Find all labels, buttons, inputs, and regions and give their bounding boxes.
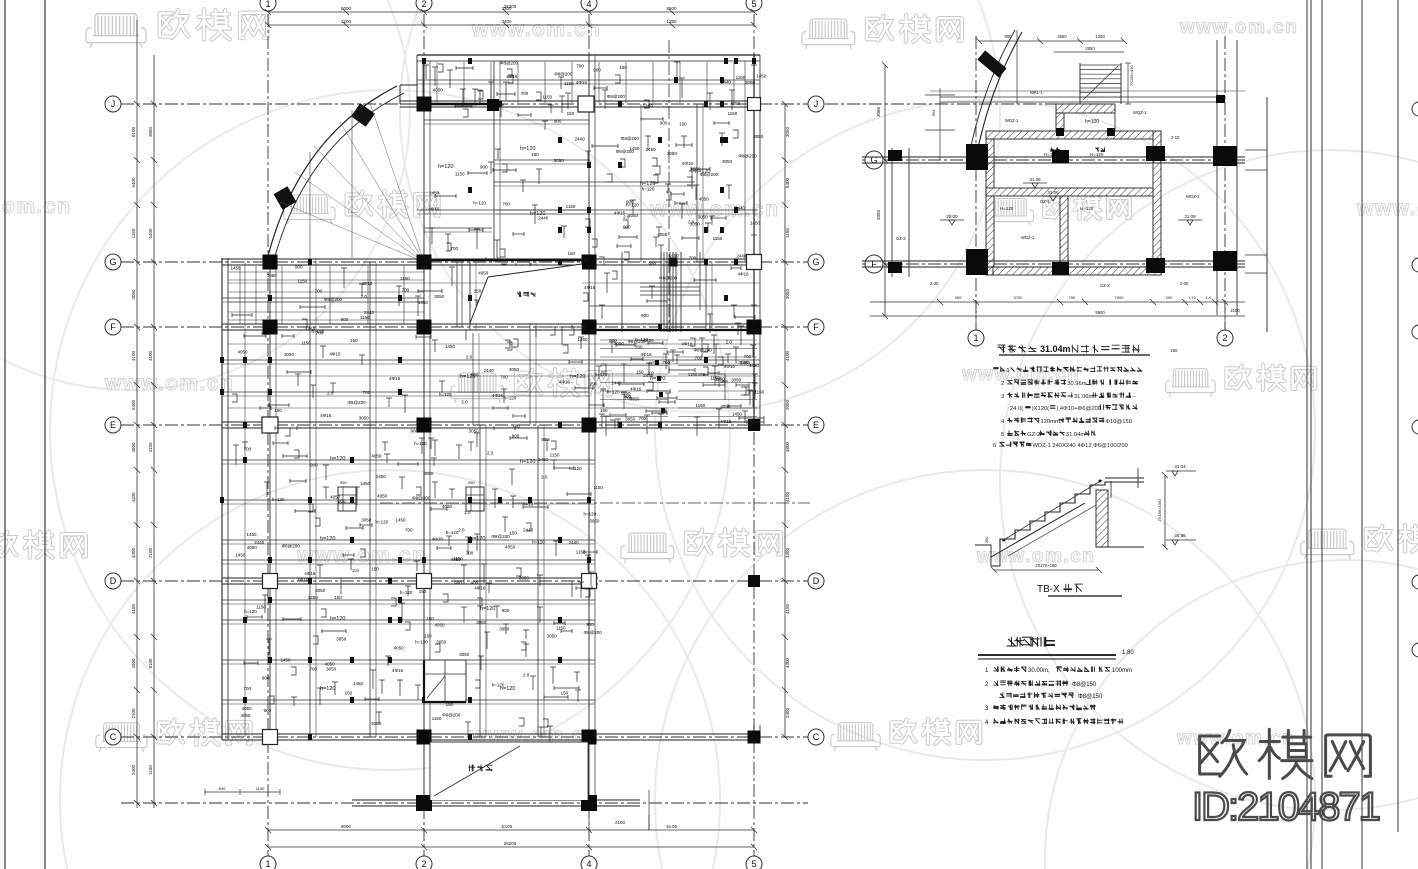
svg-text:ID:2104871: ID:2104871	[1192, 785, 1380, 829]
svg-text:2-10: 2-10	[1171, 135, 1180, 140]
svg-text:1:80: 1:80	[1122, 650, 1134, 656]
svg-text:H=120: H=120	[1090, 152, 1104, 157]
svg-text:1450: 1450	[247, 532, 258, 537]
svg-text:8000: 8000	[341, 6, 352, 11]
svg-text:WQZ-1: WQZ-1	[1133, 110, 1147, 115]
svg-text:1150: 1150	[688, 372, 698, 377]
svg-text:700: 700	[689, 256, 697, 261]
svg-text:2440: 2440	[254, 540, 265, 545]
watermarks	[86, 14, 146, 48]
svg-text:3050: 3050	[589, 518, 600, 523]
left dimension lines	[136, 20, 138, 808]
detail plan axes	[862, 159, 1245, 161]
svg-text:4200: 4200	[341, 19, 352, 24]
intermediate slab lines	[228, 282, 760, 284]
svg-text:2850: 2850	[1085, 46, 1095, 51]
svg-text:28.00: 28.00	[946, 214, 958, 219]
svg-text:2.0: 2.0	[623, 214, 630, 219]
svg-text:700: 700	[244, 447, 252, 452]
svg-text:1: 1	[265, 0, 270, 9]
room bottom redraw	[430, 742, 588, 800]
svg-text:150: 150	[589, 382, 597, 387]
svg-text:h=120: h=120	[244, 609, 257, 614]
svg-text:1450: 1450	[418, 300, 429, 305]
svg-text:3050: 3050	[722, 159, 733, 164]
svg-text:h=120: h=120	[320, 536, 335, 542]
svg-text:4050: 4050	[241, 706, 252, 711]
svg-text:h=120: h=120	[460, 374, 475, 380]
svg-text:900: 900	[341, 317, 349, 322]
svg-text:2.0: 2.0	[487, 450, 494, 455]
svg-text:900: 900	[649, 261, 657, 266]
svg-text:4150: 4150	[785, 603, 790, 614]
svg-text:2440: 2440	[569, 540, 580, 545]
svg-text:2.0: 2.0	[466, 355, 473, 360]
svg-text:h=120: h=120	[607, 390, 620, 395]
svg-text:Φ8@200: Φ8@200	[584, 630, 603, 635]
svg-text:640: 640	[219, 786, 226, 791]
svg-text:1450: 1450	[445, 344, 456, 349]
svg-text:J: J	[814, 99, 819, 109]
svg-text:4Φ16: 4Φ16	[630, 386, 642, 391]
floor notes title	[1007, 637, 1055, 647]
svg-text:4050: 4050	[451, 557, 462, 562]
svg-text:1450: 1450	[396, 518, 407, 523]
svg-text:4100: 4100	[131, 492, 136, 503]
svg-text:4Φ16: 4Φ16	[389, 376, 401, 381]
svg-text:150: 150	[561, 691, 569, 696]
svg-text:1150: 1150	[695, 403, 705, 408]
svg-text:WDZ-1: WDZ-1	[1005, 118, 1019, 123]
axis bubbles left/right	[105, 96, 121, 112]
svg-text:3050: 3050	[667, 151, 678, 156]
svg-text:4100: 4100	[148, 350, 153, 361]
svg-text:2.0: 2.0	[464, 510, 471, 515]
svg-text:G: G	[812, 257, 819, 267]
svg-text:G: G	[109, 257, 116, 267]
svg-text:GZ-2: GZ-2	[1027, 432, 1040, 438]
upper block outline	[417, 54, 760, 56]
svg-text:GZ-2: GZ-2	[1100, 283, 1110, 288]
detail plan stair shaft top	[1079, 63, 1081, 104]
svg-text:--: --	[1132, 394, 1136, 400]
svg-text:3050: 3050	[509, 367, 520, 372]
svg-text:4050: 4050	[505, 545, 516, 550]
svg-text:1450: 1450	[376, 474, 387, 479]
svg-text:150: 150	[371, 566, 379, 571]
svg-text:C: C	[813, 732, 820, 742]
svg-text:150: 150	[274, 408, 282, 413]
svg-text:2400: 2400	[785, 707, 790, 718]
svg-text:h=120: h=120	[530, 211, 545, 217]
svg-text:2440: 2440	[523, 528, 534, 533]
svg-text:www.om.cn: www.om.cn	[471, 18, 601, 41]
svg-text:700: 700	[466, 550, 474, 555]
detail plan angled column	[977, 50, 1006, 77]
svg-text:1150: 1150	[256, 605, 266, 610]
svg-text:1150: 1150	[755, 389, 765, 394]
svg-text:2440: 2440	[611, 381, 622, 386]
svg-text:4050: 4050	[247, 545, 258, 550]
svg-text:F: F	[871, 259, 877, 269]
svg-text:3050: 3050	[359, 415, 370, 420]
svg-text:1450: 1450	[429, 191, 440, 196]
svg-text:1450: 1450	[732, 412, 743, 417]
svg-text:D: D	[110, 576, 117, 586]
svg-text:2100: 2100	[148, 547, 153, 558]
svg-text:900: 900	[624, 394, 632, 399]
svg-text:954: 954	[931, 109, 936, 116]
svg-text:3050: 3050	[499, 626, 510, 631]
svg-text:700: 700	[316, 331, 324, 336]
svg-text:1350: 1350	[666, 19, 677, 24]
svg-text:350: 350	[984, 536, 989, 543]
svg-text:3: 3	[1001, 394, 1004, 400]
svg-text:E: E	[110, 420, 116, 430]
svg-text:GZ-1: GZ-1	[1040, 199, 1050, 204]
svg-text:4050: 4050	[394, 645, 405, 650]
svg-text:h=120: h=120	[438, 164, 453, 170]
svg-text:4050: 4050	[371, 453, 382, 458]
svg-text:3050: 3050	[753, 134, 764, 139]
svg-text:1150: 1150	[432, 716, 442, 721]
svg-text:www.om.cn: www.om.cn	[1179, 17, 1298, 38]
svg-text:4Φ16: 4Φ16	[304, 571, 316, 576]
svg-text:3050: 3050	[240, 713, 251, 718]
svg-text:4Φ16: 4Φ16	[641, 352, 653, 357]
stair wall hatched	[1096, 490, 1108, 547]
svg-text:Φ8@200: Φ8@200	[442, 712, 461, 717]
svg-text:4300: 4300	[131, 658, 136, 669]
svg-text:h=120: h=120	[480, 606, 495, 612]
svg-text:2.0: 2.0	[361, 294, 368, 299]
svg-text:31.06: 31.06	[1029, 177, 1041, 182]
svg-text:1150: 1150	[256, 786, 265, 791]
svg-text:4050: 4050	[435, 623, 446, 628]
svg-text:31.04: 31.04	[1174, 464, 1186, 469]
svg-text:8000: 8000	[341, 824, 352, 829]
svg-text:h=100: h=100	[1085, 119, 1099, 125]
svg-text:4150: 4150	[148, 442, 153, 453]
svg-text:F: F	[110, 322, 116, 332]
svg-text:2.0: 2.0	[458, 527, 465, 532]
svg-text:h=120: h=120	[642, 186, 655, 191]
svg-text:h=120: h=120	[272, 497, 285, 502]
svg-text:Φ8@200: Φ8@200	[554, 72, 573, 77]
svg-text:4Φ16: 4Φ16	[522, 501, 534, 506]
svg-text:900: 900	[541, 437, 549, 442]
svg-text:WDZ-1: WDZ-1	[1021, 235, 1035, 240]
svg-text:3350: 3350	[876, 209, 881, 220]
svg-text:h=120: h=120	[520, 146, 535, 152]
svg-text:4Φ16: 4Φ16	[724, 364, 736, 369]
svg-text:31.04m: 31.04m	[1066, 432, 1086, 438]
svg-text:1150: 1150	[297, 279, 307, 284]
svg-text:3050: 3050	[698, 214, 709, 219]
svg-text:7000: 7000	[1115, 295, 1125, 300]
svg-text:5900: 5900	[1095, 310, 1105, 315]
svg-text:J: J	[111, 99, 116, 109]
svg-text:900: 900	[310, 463, 318, 468]
room bottom (garbage room)	[430, 742, 588, 800]
svg-text:4Φ16: 4Φ16	[432, 537, 444, 542]
svg-text:2100: 2100	[1230, 308, 1240, 313]
svg-text:4300: 4300	[131, 547, 136, 558]
svg-text:1150: 1150	[728, 111, 738, 116]
svg-text:h=120: h=120	[504, 395, 517, 400]
svg-text:150: 150	[567, 111, 575, 116]
extra axis x=669	[668, 40, 670, 332]
svg-text:900: 900	[955, 295, 962, 300]
svg-text:3050: 3050	[785, 288, 790, 299]
svg-text:Φ8@200: Φ8@200	[659, 275, 678, 280]
bottom dimension lines	[268, 829, 754, 831]
svg-text:2400: 2400	[131, 764, 136, 775]
svg-text:28.86: 28.86	[1174, 533, 1186, 538]
bottom left small dims	[205, 791, 280, 793]
svg-text:h=120: h=120	[470, 536, 485, 542]
svg-text:1150: 1150	[455, 172, 465, 177]
svg-text:4100: 4100	[785, 491, 790, 502]
svg-text:)X120(: )X120(	[1032, 406, 1049, 412]
svg-text:900: 900	[586, 622, 594, 627]
svg-text:700: 700	[405, 527, 413, 532]
svg-text:100mm: 100mm	[1112, 668, 1132, 674]
svg-text:900: 900	[623, 225, 631, 230]
svg-text:900: 900	[261, 331, 269, 336]
svg-text:4050: 4050	[377, 493, 388, 498]
svg-text:www.om.cn: www.om.cn	[296, 544, 426, 567]
svg-text:2.0: 2.0	[461, 399, 468, 404]
svg-text:E: E	[813, 420, 819, 430]
svg-text:700: 700	[244, 686, 252, 691]
svg-text:3050: 3050	[361, 518, 372, 523]
svg-text:4Φ16: 4Φ16	[297, 577, 309, 582]
detail plan level marks	[1023, 182, 1047, 184]
svg-text:3050: 3050	[336, 637, 347, 642]
svg-text:5400: 5400	[148, 228, 153, 239]
stair reinforcement diagonal	[1002, 480, 1102, 541]
plan clutter: small labels/ticks	[429, 62, 738, 261]
svg-text:4050: 4050	[699, 196, 710, 201]
svg-text:150: 150	[334, 595, 342, 600]
detail plan beams	[862, 156, 1245, 158]
svg-text:4Φ16: 4Φ16	[492, 393, 504, 398]
svg-text:Φ8@200: Φ8@200	[621, 136, 640, 141]
svg-text:1150: 1150	[550, 453, 560, 458]
svg-text:2100: 2100	[615, 820, 626, 825]
svg-text:4Φ16: 4Φ16	[329, 351, 341, 356]
svg-text:2440: 2440	[575, 136, 586, 141]
svg-text:4050: 4050	[749, 363, 760, 368]
svg-text:700: 700	[363, 390, 371, 395]
detail aux lines	[825, 103, 1110, 105]
svg-text:4Φ16: 4Φ16	[392, 668, 404, 673]
svg-text:h=120: h=120	[330, 616, 345, 622]
svg-text:7X156=430: 7X156=430	[1129, 65, 1134, 86]
stair level flags	[1166, 470, 1196, 472]
svg-text:1450: 1450	[740, 360, 751, 365]
svg-text:900: 900	[454, 580, 462, 585]
svg-text:1450: 1450	[538, 457, 549, 462]
svg-text:1150: 1150	[400, 276, 410, 281]
svg-text:2440: 2440	[735, 205, 746, 210]
detail plan columns	[966, 144, 988, 170]
svg-text:900: 900	[660, 120, 668, 125]
svg-text:150: 150	[600, 408, 608, 413]
svg-text:150: 150	[350, 338, 358, 343]
svg-text:3050: 3050	[476, 620, 487, 625]
svg-text:30.00m,: 30.00m,	[1028, 668, 1050, 674]
watermark arcs	[50, 90, 730, 770]
svg-text:900: 900	[338, 499, 346, 504]
svg-text:4100: 4100	[785, 350, 790, 361]
svg-text:h=120: h=120	[532, 540, 545, 545]
svg-text:3050: 3050	[731, 378, 742, 383]
curved corner beam	[268, 86, 397, 256]
corner angled columns	[351, 103, 375, 126]
svg-text:5400: 5400	[131, 177, 136, 188]
svg-text:1150: 1150	[593, 485, 603, 490]
svg-text:WDZ-1 240X240 4Φ12,Φ6@100/200: WDZ-1 240X240 4Φ12,Φ6@100/200	[1032, 443, 1127, 449]
svg-text:1150: 1150	[556, 625, 566, 630]
svg-text:10.05: 10.05	[501, 824, 513, 829]
svg-text:900: 900	[626, 200, 634, 205]
svg-text:www.om.cn: www.om.cn	[104, 372, 234, 395]
svg-text:900: 900	[480, 165, 488, 170]
svg-text:F: F	[813, 322, 819, 332]
svg-text:25200: 25200	[504, 841, 517, 846]
svg-text:5: 5	[751, 859, 756, 869]
svg-text:Φ8@200: Φ8@200	[738, 153, 757, 158]
svg-text:Φ8@200: Φ8@200	[491, 534, 510, 539]
svg-text:900: 900	[554, 119, 562, 124]
svg-text:h=120: h=120	[584, 511, 597, 516]
svg-text:1150: 1150	[148, 765, 153, 775]
svg-text:3050: 3050	[625, 417, 636, 422]
svg-text:7X156=1092: 7X156=1092	[1157, 498, 1162, 522]
svg-text:3050: 3050	[131, 289, 136, 300]
svg-text:3050: 3050	[371, 721, 382, 726]
svg-text:h=120: h=120	[473, 200, 486, 205]
svg-text:4050: 4050	[478, 270, 489, 275]
svg-text:900: 900	[410, 429, 418, 434]
svg-text:4150: 4150	[131, 603, 136, 614]
svg-text:4050: 4050	[730, 101, 741, 106]
svg-text:700: 700	[450, 246, 458, 251]
stair slab	[975, 545, 1000, 566]
svg-text:Φ10@150: Φ10@150	[1105, 419, 1132, 425]
svg-text:1150: 1150	[713, 236, 723, 241]
svg-text:4050: 4050	[433, 88, 444, 93]
svg-text:2.0: 2.0	[541, 474, 548, 479]
F-E right bay strip lines	[600, 339, 668, 341]
svg-text:150: 150	[698, 372, 706, 377]
svg-text:700: 700	[315, 288, 323, 293]
svg-text:3050: 3050	[284, 352, 295, 357]
svg-text:150: 150	[636, 370, 644, 375]
svg-text:1450: 1450	[643, 103, 654, 108]
svg-text:4Φ16: 4Φ16	[576, 80, 588, 85]
svg-text:120mm,: 120mm,	[1040, 419, 1061, 425]
svg-text:1450: 1450	[308, 595, 319, 600]
svg-text:700: 700	[1069, 295, 1076, 300]
svg-text:WGZ-1: WGZ-1	[1186, 194, 1200, 199]
svg-text:16.05: 16.05	[666, 824, 678, 829]
svg-text:3050: 3050	[315, 588, 326, 593]
detail plan axis bubbles	[865, 151, 883, 169]
svg-text:900: 900	[295, 264, 303, 269]
svg-text:1150: 1150	[360, 315, 370, 320]
svg-text:3050: 3050	[519, 576, 530, 581]
main beam grid	[400, 100, 760, 102]
svg-text:3050: 3050	[148, 126, 153, 137]
svg-text:1450: 1450	[629, 146, 640, 151]
detail notes	[993, 367, 1005, 372]
svg-text:950: 950	[468, 480, 475, 485]
svg-text:1150: 1150	[576, 550, 586, 555]
svg-text:150: 150	[531, 152, 539, 157]
svg-text:TB-X: TB-X	[1037, 584, 1060, 595]
svg-text:4Φ16: 4Φ16	[361, 281, 373, 286]
svg-text:1: 1	[973, 333, 978, 343]
svg-text:Φ8@200: Φ8@200	[627, 339, 646, 344]
svg-text:31.06: 31.06	[1047, 190, 1059, 195]
svg-text:1150: 1150	[785, 228, 790, 238]
svg-text:h=120: h=120	[640, 181, 655, 187]
svg-text:1450: 1450	[353, 681, 364, 686]
svg-text:5: 5	[751, 0, 756, 9]
svg-text:2100: 2100	[131, 708, 136, 719]
svg-text:1450: 1450	[231, 266, 242, 271]
stair bottom dim	[994, 569, 1099, 571]
svg-text:1450: 1450	[646, 147, 657, 152]
main plan vertical axes	[267, 14, 269, 856]
svg-text:1450: 1450	[360, 481, 371, 486]
svg-text:1150: 1150	[564, 81, 574, 86]
svg-text:900: 900	[641, 313, 649, 318]
svg-text:25200: 25200	[504, 4, 517, 9]
svg-text:3050: 3050	[554, 158, 565, 163]
J beam thick segment	[424, 103, 494, 106]
svg-text:h=120: h=120	[570, 374, 585, 380]
svg-text:4300: 4300	[785, 657, 790, 668]
junction blobs	[558, 227, 562, 233]
sheet border lines	[4, 0, 6, 869]
svg-text:h=120: h=120	[376, 519, 389, 524]
svg-text:3050: 3050	[326, 667, 337, 672]
elevator shaft small	[424, 660, 466, 702]
svg-text:200: 200	[1166, 295, 1173, 300]
svg-text:8100: 8100	[148, 658, 153, 669]
svg-text:h=120: h=120	[400, 590, 413, 595]
svg-text:150: 150	[509, 530, 517, 535]
svg-text:150: 150	[345, 691, 353, 696]
svg-text:900: 900	[512, 433, 520, 438]
svg-text:1450: 1450	[281, 658, 292, 663]
svg-text:h=120: h=120	[520, 459, 535, 465]
right edge partial axis bubbles	[1412, 102, 1418, 116]
svg-text:700: 700	[521, 91, 529, 96]
svg-text:GZ-3: GZ-3	[896, 236, 906, 241]
svg-text:3050: 3050	[436, 639, 447, 644]
svg-text:6: 6	[993, 443, 996, 449]
svg-text:1.4: 1.4	[1205, 295, 1211, 300]
svg-text:D: D	[813, 576, 820, 586]
svg-text:www.om.cn: www.om.cn	[1176, 728, 1295, 749]
svg-text:1150: 1150	[648, 361, 658, 366]
svg-text:H=120: H=120	[1080, 206, 1094, 211]
